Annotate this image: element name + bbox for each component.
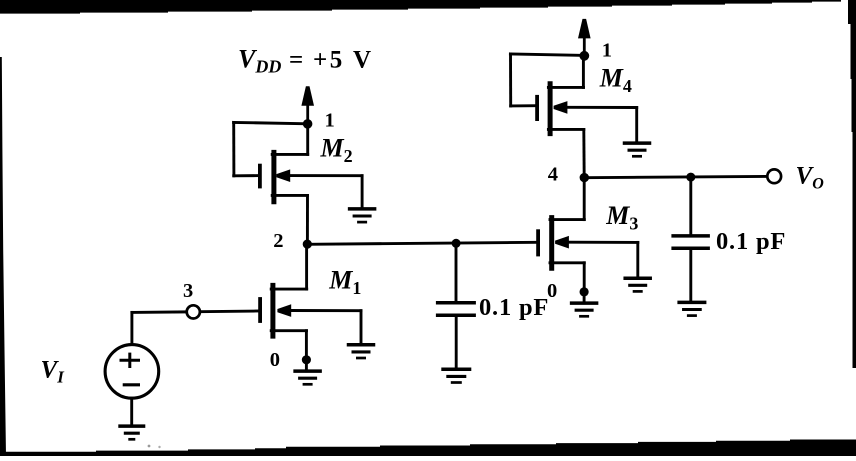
voltage source VI minus sign — [123, 383, 140, 386]
wire M3 body horizontal — [568, 241, 638, 244]
wire M1 body ground vertical — [360, 311, 363, 345]
wire M3 drain horizontal — [550, 218, 584, 221]
transistor M4 gate bar — [535, 95, 539, 121]
ground at M1 body — [347, 345, 376, 358]
wire M4 drain vertical — [582, 56, 585, 88]
wire node0-left ground stem — [305, 360, 308, 371]
wire M1 source vertical — [305, 331, 308, 360]
junction dot node2/C1 — [452, 239, 461, 248]
wire C2 top — [689, 177, 692, 234]
ground at node 0 (right) — [570, 303, 599, 316]
ground at VI — [118, 426, 145, 439]
wire M1 body horizontal — [290, 309, 361, 312]
wire M4 source vertical — [582, 129, 585, 177]
wire M2 source vertical — [306, 195, 309, 244]
wire M3 body ground vertical — [636, 242, 639, 278]
wire C1 top — [455, 243, 458, 301]
node 4 junction dot — [580, 173, 589, 182]
wire M4 gate horizontal — [511, 104, 536, 107]
node 3 open terminal — [187, 305, 200, 318]
wire M2 drain horizontal — [272, 153, 308, 156]
wire node2 to M3 gate — [307, 242, 536, 244]
wire node1-right horizontal — [510, 54, 584, 56]
wire M1 source horizontal — [271, 329, 306, 332]
wire M1 drain vertical — [305, 244, 308, 289]
wire M3 source vertical — [583, 263, 586, 288]
ground at M3 body — [623, 278, 652, 291]
wire M4 body horizontal — [567, 106, 637, 109]
wire M3 drain vertical — [583, 178, 586, 220]
voltage source VI circle — [105, 345, 159, 399]
wire M4 drain horizontal — [548, 86, 583, 89]
VDD arrow (right supply) — [578, 19, 591, 56]
ground at M2 body — [348, 209, 377, 222]
junction dot node4/C2 — [686, 173, 695, 182]
wire VI to node3 — [132, 310, 186, 313]
wire VI top vertical — [130, 312, 133, 345]
svg-text:0: 0 — [547, 280, 557, 302]
transistor M3 gate bar — [536, 229, 540, 256]
wire node1-left horizontal — [234, 122, 308, 123]
node 2 junction dot — [303, 240, 312, 249]
transistor M4 channel bar — [548, 81, 553, 136]
capacitor C2 top plate — [671, 234, 710, 238]
node 1 junction dot (right) — [579, 51, 589, 61]
wire M2 body ground vertical — [361, 176, 364, 209]
capacitor C1 bottom plate — [436, 313, 476, 317]
wire M2 drain vertical — [306, 124, 309, 155]
VDD arrow (left supply) — [301, 86, 314, 124]
wire M2 body horizontal — [289, 174, 362, 177]
wire M4 body ground vertical — [635, 108, 638, 144]
output terminal VO open circle — [767, 169, 781, 183]
ground at node 0 (left) — [293, 371, 322, 384]
transistor M1 body arrowhead — [277, 304, 291, 317]
svg-text:3: 3 — [183, 280, 193, 302]
capacitor C1 top plate — [436, 301, 476, 305]
voltage source VI plus sign — [120, 353, 141, 368]
svg-text:1: 1 — [602, 40, 612, 62]
wire node0-right ground stem — [583, 292, 586, 303]
transistor M2 gate bar — [258, 164, 262, 189]
wire C2 bottom — [689, 248, 692, 300]
transistor M1 gate bar — [258, 297, 262, 323]
wire M2 gate feedback vertical — [232, 122, 235, 175]
wire M3 source horizontal — [550, 261, 584, 264]
transistor M2 body arrowhead — [276, 169, 290, 182]
wire M4 source horizontal — [548, 128, 583, 131]
wire C1 bottom — [455, 315, 458, 367]
ground at C1 — [441, 369, 471, 382]
svg-text:0: 0 — [270, 349, 280, 371]
svg-text:1: 1 — [325, 110, 335, 132]
wire node4 to output — [584, 176, 767, 177]
svg-text:4: 4 — [548, 163, 558, 185]
transistor M3 channel bar — [549, 215, 554, 271]
node 0 junction dot (left) — [302, 355, 311, 364]
wire node3 to M1 gate — [200, 310, 258, 314]
ground at C2 — [677, 302, 706, 315]
svg-text:0.1 pF: 0.1 pF — [479, 294, 549, 321]
wire M4 gate feedback vertical — [509, 54, 512, 106]
node 0 junction dot (right) — [580, 287, 589, 296]
wire M2 gate horizontal — [234, 174, 259, 177]
transistor M2 channel bar — [271, 150, 276, 204]
ground at M4 body — [623, 143, 652, 156]
wire M1 drain horizontal — [271, 288, 307, 291]
transistor M1 channel bar — [270, 283, 275, 339]
node 1 junction dot (left) — [303, 119, 313, 129]
svg-text:0.1 pF: 0.1 pF — [716, 228, 786, 255]
wire M2 source horizontal — [272, 194, 307, 197]
capacitor C2 bottom plate — [671, 247, 710, 251]
wire VI ground stem — [130, 398, 133, 426]
svg-text:2: 2 — [273, 230, 283, 252]
transistor M4 body arrowhead — [554, 101, 568, 114]
transistor M3 body arrowhead — [555, 236, 569, 249]
